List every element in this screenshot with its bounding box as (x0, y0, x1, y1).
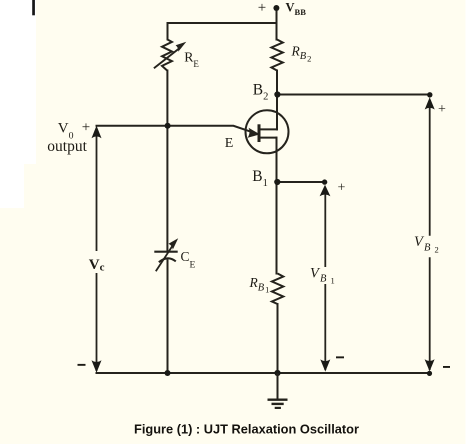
node B1 junction dot (274, 179, 280, 185)
resistor RB1 (272, 274, 283, 305)
wire RB1 to bottom wire (277, 304, 279, 373)
transistor Q1 UJT body circle (246, 110, 289, 153)
wire VBB terminal to RB2 (276, 8, 278, 40)
VB2 measurement line (429, 100, 431, 370)
junction dot ground at bottom rail (274, 370, 280, 376)
resistor RE (variable) (154, 39, 181, 70)
capacitor CE (variable) top plate (154, 251, 177, 253)
wire node A to CE (166, 126, 168, 252)
minus sign at VB1 bottom (336, 356, 344, 358)
node B2 junction dot (274, 91, 280, 97)
svg-text:+: + (338, 181, 346, 196)
resistor RB2 (271, 40, 282, 71)
capacitor CE variable arrow (156, 246, 173, 271)
svg-text:output: output (47, 138, 87, 155)
transistor Q1 B1 lead (259, 137, 277, 139)
node A junction dot (RE/CE/output) (165, 123, 171, 129)
svg-text:E: E (225, 136, 234, 151)
wire B2 node to VB2 arrow (277, 94, 430, 96)
minus sign at VB2 bottom (443, 366, 450, 368)
wire CE to bottom wire (167, 261, 169, 374)
node VB2 top dot (427, 92, 432, 97)
wire top (VBB to RE branch) (168, 22, 277, 24)
junction dot CE at bottom rail (165, 370, 171, 376)
wire RB2 to B2 node and into UJT base lead B2 (276, 71, 278, 130)
scan artifact tick top-left (32, 0, 35, 15)
wire B1 node to VB1 arrow (277, 181, 325, 183)
node VB1 top dot (322, 179, 327, 184)
svg-text:Figure (1) : UJT Relaxation Os: Figure (1) : UJT Relaxation Oscillator (134, 422, 359, 437)
wire RE branch top (167, 23, 169, 39)
node VB2 bottom dot (427, 371, 432, 376)
svg-text:+: + (82, 119, 90, 135)
wire RE to node A (166, 71, 168, 126)
svg-text:+: + (438, 102, 446, 117)
node VBB terminal dot (273, 5, 279, 11)
transistor Q1 base bar (258, 124, 261, 142)
wire bottom rail (97, 372, 430, 374)
minus sign at Vc bottom (78, 364, 86, 366)
wire UJT B1 lead to B1 node to RB1 (276, 138, 278, 274)
Vc measurement line (96, 129, 98, 371)
svg-text:+: + (258, 0, 266, 16)
wire output node to emitter (97, 126, 253, 132)
capacitor CE curved plate (159, 258, 176, 262)
ground (268, 373, 288, 408)
transistor Q1 emitter arrowhead (248, 128, 260, 138)
VB1 measurement line (324, 188, 326, 370)
transistor Q1 B2 lead (259, 128, 278, 130)
